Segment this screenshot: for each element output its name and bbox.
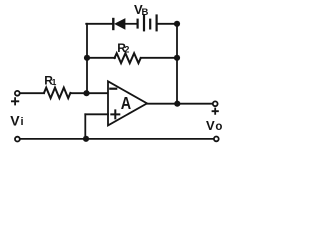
wire right vertical rail [176,24,178,104]
label Vo [206,118,222,133]
node junction R2 right [174,55,180,61]
label R2 [117,41,129,55]
wire top branch to diode [86,23,112,25]
svg-text:A: A [121,93,132,113]
wire input to R1 [20,92,44,94]
battery VB plate short 2 [149,20,151,29]
wire R1 to op-amp inverting input (through node) [70,92,108,94]
battery VB plate tall 1 [143,16,145,31]
node junction R1 / feedback [83,90,89,96]
label VB [134,2,149,18]
terminal Vo- (bottom right, open circle) [214,137,219,142]
resistor R1 [44,88,70,99]
node junction top right [174,21,180,27]
svg-text:o: o [215,121,222,133]
svg-text:i: i [21,116,24,128]
polarity marker + at output [213,109,218,114]
op-amp noninverting input marker + [111,110,119,118]
label Vi [10,112,23,128]
polarity marker + at input [12,98,18,104]
wire R2 branch left [87,57,115,59]
op-amp inverting input marker - [110,88,116,90]
wire noninverting input vertical to ground rail [84,114,86,139]
wire bottom rail [20,138,213,140]
node junction bottom rail [83,136,89,142]
wire diode to battery [125,23,137,25]
diode cathode bar [112,19,114,29]
op-amp A triangle [108,81,147,125]
wire R2 branch right [141,57,177,59]
wire op-amp output [147,103,213,105]
terminal Vo+ (output, open circle) [213,101,218,106]
wire battery to right rail [158,23,177,25]
wire left feedback vertical [86,24,88,93]
battery VB plate short 1 [137,20,139,28]
node junction output / right rail [174,101,180,107]
svg-text:1: 1 [52,77,57,87]
terminal Vi- (bottom left, open circle) [15,137,20,142]
label R1 [44,74,56,88]
svg-text:V: V [206,118,215,133]
svg-text:B: B [142,7,149,18]
wire noninverting input stub [85,113,108,115]
svg-text:2: 2 [124,44,129,54]
diode triangle [115,19,125,29]
terminal Vi+ (input, open circle) [15,91,20,96]
node junction R2 left [84,55,90,61]
svg-text:V: V [10,112,20,128]
battery VB plate tall 2 [156,16,158,31]
resistor R2 [115,53,141,63]
